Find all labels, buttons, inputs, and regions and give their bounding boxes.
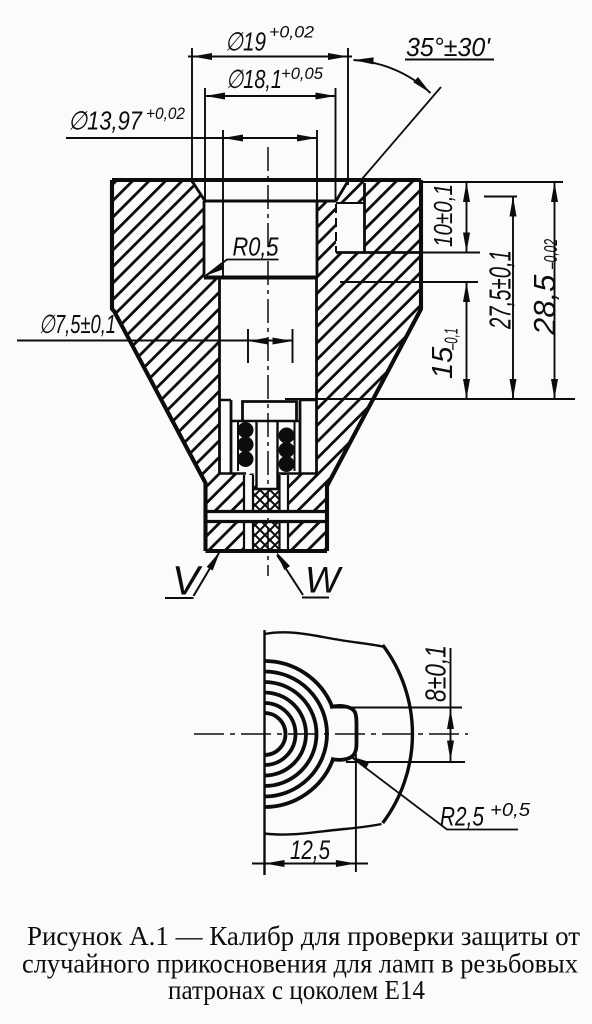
contact bump R2,5 [330, 706, 357, 760]
cavity white [204, 201, 317, 278]
break line bottom [265, 824, 382, 835]
svg-text:+0,05: +0,05 [281, 64, 324, 83]
svg-text:V: V [172, 558, 203, 604]
notch top edge [336, 202, 365, 204]
notch right wall [363, 183, 366, 253]
dim Ø18,1 line [205, 95, 336, 97]
contact cross-hatch square lower [253, 523, 280, 551]
dim Ø13,97 line with left leader [66, 137, 317, 139]
recess chamfer right [336, 181, 348, 201]
bottom extension line (y=399) [285, 398, 575, 400]
inner channel white [220, 400, 317, 474]
recess chamfer left [192, 181, 205, 201]
dim Ø19 extension lines [192, 48, 348, 185]
thread section dots left [238, 422, 254, 438]
dim 8±0,1 extension lines [333, 708, 465, 763]
detail horizontal centerline [194, 733, 468, 735]
dim Ø7,5 extension lines [248, 329, 293, 363]
channel walls [220, 278, 317, 474]
ring r31 [265, 703, 296, 765]
dim 28,5 -0,02 [554, 182, 556, 399]
dim 15 -0,1 [466, 282, 468, 399]
svg-text:–0,1: –0,1 [442, 328, 462, 351]
shelf extension line (15 top) [340, 281, 478, 283]
bottom edge [206, 549, 328, 553]
detail vertical edge line [263, 630, 265, 875]
ring r41.5 [265, 693, 307, 776]
dim Ø13,97 extension lines [223, 130, 317, 277]
main body hatched cross-section [112, 180, 421, 551]
svg-text:R2,5: R2,5 [440, 802, 485, 832]
outer body arc [383, 645, 413, 823]
35 degree arc dimension [354, 60, 431, 93]
ring r73 (outer, interrupted by bump) [265, 661, 334, 807]
recess bottom line [205, 200, 336, 203]
cavity walls [204, 201, 317, 278]
stem white [257, 421, 278, 489]
svg-text:8±0,1: 8±0,1 [421, 645, 453, 702]
ring r52 [265, 682, 317, 786]
housing top edge [231, 420, 300, 422]
dim 12,5 extension line right [355, 754, 357, 872]
dim Ø18,1 extension lines [205, 88, 336, 202]
svg-text:+0,02: +0,02 [269, 23, 315, 42]
svg-text:12,5: 12,5 [290, 835, 331, 865]
svg-text:W: W [305, 560, 343, 601]
housing bottom segments [220, 472, 317, 474]
contact square top edge [253, 488, 280, 490]
recess white (top counterbore) [192, 180, 348, 201]
thread outline tangent lines [238, 422, 295, 471]
notch bottom line [336, 251, 421, 254]
contact cross-hatch square upper [253, 489, 280, 512]
dim 10±0,1 [466, 182, 468, 253]
right notch white [336, 203, 365, 253]
svg-text:∅19: ∅19 [225, 27, 266, 57]
dim Ø19 line [188, 56, 352, 58]
svg-text:35°±30': 35°±30' [406, 32, 491, 62]
notch hidden left edge (dashed) [335, 204, 337, 253]
notch bottom extension [421, 252, 480, 254]
channel white [220, 278, 317, 401]
break line top [265, 632, 383, 646]
dim Ø7,5 line with leader [17, 340, 293, 342]
ring r62.5 [265, 672, 328, 797]
plunger cap [243, 402, 297, 422]
svg-text:случайного прикосновения для л: случайного прикосновения для ламп в резь… [22, 949, 578, 979]
svg-text:–0,02: –0,02 [541, 239, 561, 270]
dim 8±0,1 line [450, 648, 452, 762]
slot vertical lines [244, 475, 288, 551]
svg-text:патронах с цоколем Е14: патронах с цоколем Е14 [168, 975, 425, 1005]
svg-text:∅13,97: ∅13,97 [68, 106, 143, 136]
svg-text:Рисунок А.1 — Калибр для прове: Рисунок А.1 — Калибр для проверки защиты… [27, 921, 580, 951]
spring housing walls [231, 400, 300, 474]
svg-text:27,5±0,1: 27,5±0,1 [483, 250, 518, 330]
svg-text:∅18,1: ∅18,1 [226, 64, 282, 94]
band lines [206, 512, 328, 522]
label R2,5 +0,5 with leader [350, 756, 518, 830]
thread section dots right [279, 428, 295, 444]
svg-text:+0,02: +0,02 [146, 104, 185, 123]
ring r21 [265, 713, 286, 755]
top face extension line right [421, 181, 563, 183]
slot whites [244, 475, 253, 512]
centerline main view [267, 147, 269, 576]
35 degree chamfer construction line [362, 87, 441, 179]
svg-text:∅7,5±0,1: ∅7,5±0,1 [39, 309, 116, 339]
svg-text:10±0,1: 10±0,1 [428, 184, 458, 247]
svg-text:R0,5: R0,5 [233, 232, 279, 262]
svg-text:28,5: 28,5 [527, 274, 562, 336]
27,5 top extension stub [484, 196, 517, 198]
dim 12,5 line [252, 863, 368, 865]
dim 27,5±0,1 [512, 197, 514, 400]
band white [206, 513, 328, 521]
cavity shelf [204, 276, 317, 280]
channel bottom stubs [220, 399, 317, 401]
svg-text:+0,5: +0,5 [490, 800, 531, 820]
body outline [112, 180, 421, 551]
stem walls [257, 421, 278, 489]
